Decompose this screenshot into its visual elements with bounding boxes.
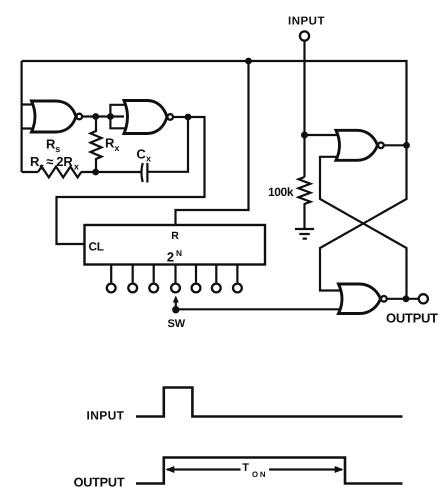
bubble G2 xyxy=(167,114,173,120)
bubble G4 xyxy=(381,296,387,302)
svg-text:ON: ON xyxy=(252,470,267,479)
wire gate3 lower input cross-couple from G4 out xyxy=(320,157,407,299)
wire top feedback rail xyxy=(22,61,407,145)
svg-text:≈: ≈ xyxy=(46,154,53,169)
svg-text:R: R xyxy=(171,230,179,242)
or-gate G1 xyxy=(32,101,77,132)
resistor 100k xyxy=(299,177,311,228)
pin circle 1 xyxy=(107,284,116,293)
node G3 output xyxy=(403,142,410,149)
node Rx bottom Rs right xyxy=(92,169,99,176)
node gate2 tied input xyxy=(107,113,114,120)
node rail to R xyxy=(245,58,252,65)
node input to gate3 xyxy=(301,132,308,139)
svg-text:OUTPUT: OUTPUT xyxy=(74,475,125,489)
svg-text:s: s xyxy=(55,144,60,154)
wire gate1 output to gate2 input xyxy=(80,115,124,117)
svg-text:N: N xyxy=(176,248,182,258)
arrowhead right xyxy=(335,466,344,473)
pin circle 6 xyxy=(212,284,221,293)
arrowhead left xyxy=(166,466,175,473)
or-gate G2 xyxy=(124,101,167,134)
resistor Rx xyxy=(91,117,102,173)
wire G3 output xyxy=(384,144,407,146)
wire left input rail xyxy=(21,61,23,172)
wire gate1 input stubs xyxy=(22,105,36,129)
svg-text:T: T xyxy=(242,462,249,474)
pin circle 3 xyxy=(149,284,158,293)
node SW xyxy=(172,306,179,313)
svg-text:2: 2 xyxy=(167,249,174,264)
svg-text:CL: CL xyxy=(89,240,105,254)
wire gate2 tied-input bracket xyxy=(110,105,127,129)
pin circle 7 xyxy=(233,284,242,293)
node gate2 output xyxy=(185,114,192,121)
nor-gate G3 xyxy=(336,130,378,160)
svg-text:s: s xyxy=(39,162,44,172)
wire bottom oscillator rail left stub xyxy=(22,171,38,173)
capacitor Cx xyxy=(141,163,147,183)
svg-text:OUTPUT: OUTPUT xyxy=(386,310,438,325)
svg-text:INPUT: INPUT xyxy=(288,15,325,27)
pin circle 5 xyxy=(192,284,201,293)
waveform INPUT xyxy=(136,388,403,417)
node G4 output xyxy=(403,295,410,302)
wire SW arrow shaft xyxy=(175,300,177,310)
wire gate2 output xyxy=(173,116,188,118)
wire SW to latch lower input xyxy=(176,308,344,310)
arrowhead SW xyxy=(173,296,179,303)
svg-text:INPUT: INPUT xyxy=(87,409,125,423)
svg-text:C: C xyxy=(136,146,146,161)
wire input vertical xyxy=(303,41,305,177)
svg-text:x: x xyxy=(146,154,151,164)
wire gate4 upper input cross-couple from G3 out xyxy=(320,145,407,290)
wire reset R routing from rail xyxy=(176,61,249,225)
svg-text:2R: 2R xyxy=(56,154,73,169)
svg-text:SW: SW xyxy=(168,318,186,330)
wire G4 output xyxy=(387,298,419,300)
node gate1-out Rx top xyxy=(92,113,99,120)
terminal OUTPUT xyxy=(419,294,428,303)
bubble G3 xyxy=(378,143,384,149)
resistor Rs xyxy=(38,167,81,178)
bubble G1 xyxy=(77,114,83,120)
waveform OUTPUT xyxy=(136,458,403,484)
wire Rs to Cx xyxy=(81,171,141,173)
ground xyxy=(295,229,314,239)
terminal INPUT xyxy=(300,31,309,40)
svg-text:x: x xyxy=(114,143,119,153)
arrow Ton span xyxy=(167,468,342,470)
wire input to gate3 top input xyxy=(305,134,341,136)
wire gate2 output to CL routing xyxy=(57,117,205,244)
svg-text:x: x xyxy=(74,162,79,172)
nor-gate G4 xyxy=(339,284,381,314)
pin circle 4 SW xyxy=(171,284,180,293)
pin circle 2 xyxy=(128,284,137,293)
pin stubs xyxy=(111,264,237,283)
wire Cx to gate2 output node xyxy=(148,117,188,172)
counter box 2^N xyxy=(85,225,266,265)
svg-text:100k: 100k xyxy=(268,185,294,199)
